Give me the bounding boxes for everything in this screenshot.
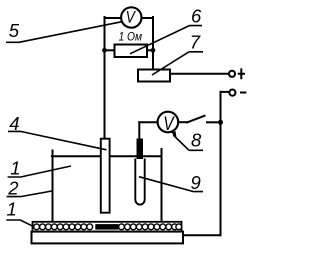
svg-text:4: 4 [9, 113, 19, 134]
svg-text:5: 5 [9, 20, 20, 41]
svg-text:7: 7 [190, 32, 201, 53]
svg-text:1: 1 [10, 158, 20, 179]
svg-text:2: 2 [7, 177, 19, 198]
svg-text:6: 6 [191, 5, 202, 26]
svg-text:1 Ом: 1 Ом [119, 30, 143, 44]
svg-text:8: 8 [191, 129, 202, 150]
svg-text:1: 1 [7, 198, 17, 219]
svg-text:9: 9 [191, 172, 201, 193]
